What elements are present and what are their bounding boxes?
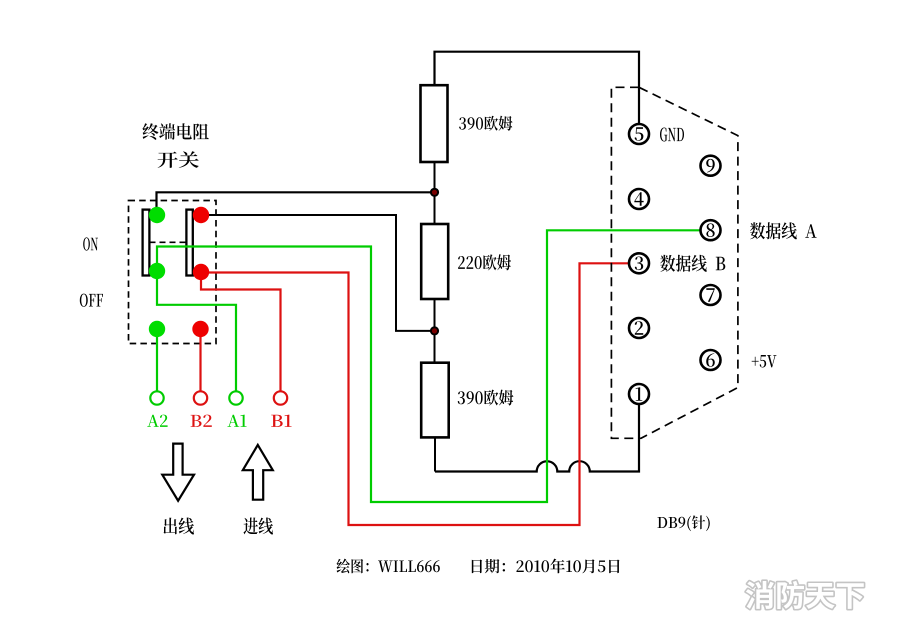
pin 1 circle [629,384,649,404]
wire: junction 2 to R3 top [434,331,436,363]
label "出线" [164,518,195,535]
wire (green): switch mid contact A to pin 8 [157,230,700,502]
wire: switch top red contact to junction 2 [201,215,435,331]
wire (red): switch mid contact B down to terminal B1 [201,273,281,392]
junction node 1 (R1/R2) [431,189,438,196]
label GND (pin 5) [660,128,684,142]
terminal label B2 [191,415,212,427]
pin 9 circle [701,156,721,176]
switch S1 pole A bar [143,210,150,276]
junction node 2 (R2/R3) [431,327,438,334]
watermark "消防天下" [746,581,864,609]
caption "日期: 2010年10月5日" [472,559,620,574]
wire: R3 bottom to bottom bus [434,437,436,471]
label title "开关" [158,151,199,168]
pin 6 number [706,353,715,367]
wire: top of R1 to pin 5 [435,52,640,124]
switch contact B mid (red) [193,264,209,280]
wire (green): bottom contact to terminal A2 [156,329,158,392]
value label R3 "390欧姆" [458,390,514,406]
pin 3 circle [629,253,649,273]
pin 5 number [635,127,644,141]
value label R2 "220欧姆" [458,254,511,270]
pin 3 number [635,256,643,270]
wire (red): bottom contact to terminal B2 [199,329,201,392]
switch contact A bottom (green) [149,321,165,337]
value label R1 "390欧姆" [459,116,512,131]
pin 4 number [634,192,643,206]
label +5V (pin 6) [752,355,777,368]
label "数据线 A" (pin 8) [750,222,817,239]
wire: switch top green contact to junction 1 [157,192,435,215]
pin 2 circle [629,318,649,338]
label OFF [80,294,103,307]
label ON [83,237,98,250]
pin 6 circle [701,350,721,370]
wire (red): switch mid contact B to pin 3 [201,263,629,525]
pin 1 number [636,387,643,401]
pin 7 circle [701,285,721,305]
label title "终端电阻" [142,123,208,140]
terminal B2 (red ring) [194,391,207,404]
wire: junction 1 to R2 top [434,192,436,224]
terminal B1 (red ring) [274,391,287,404]
switch contact B top (red) [193,207,209,223]
pin 5 circle [629,124,649,144]
pin 4 circle [629,189,649,209]
caption "绘图: WILL666" [337,559,440,574]
label "数据线 B" (pin 3) [660,255,725,272]
arrow down (outgoing 出线) [162,444,194,501]
terminal A2 (green ring) [150,391,163,404]
switch contact A top (green) [149,207,165,223]
terminal A1 (green ring) [229,391,242,404]
resistor R2 220ohm [421,224,448,299]
resistor R1 390ohm [421,85,448,162]
resistor R3 390ohm [421,363,449,438]
DB9 connector outline (dashed) [611,87,738,438]
pin 8 circle [701,220,721,240]
terminal label A2 [147,415,167,427]
label "DB9(针)" [657,515,709,531]
switch contact A mid (green) [149,263,165,279]
switch contact B bottom (red) [192,321,208,337]
wire: R2 bottom to junction 2 [434,299,436,331]
pin 7 number [706,288,714,302]
switch S1 pole B bar [186,210,192,276]
wire: R1 bottom to junction 1 [434,162,436,192]
wire: bottom bus to pin 1 (with crossover hops) [435,405,639,472]
switch mechanical linkage (dashed) [150,241,187,243]
wire (green): switch mid contact A down to terminal A1 [157,271,236,392]
switch S1 enclosure (dashed) [129,201,217,344]
pin 2 number [635,321,643,335]
pin 9 number [706,159,715,173]
label "进线" [243,518,273,535]
terminal label A1 [227,415,246,427]
pin 8 number [706,223,714,237]
terminal label B1 [271,415,291,427]
arrow up (incoming 进线) [243,445,273,500]
